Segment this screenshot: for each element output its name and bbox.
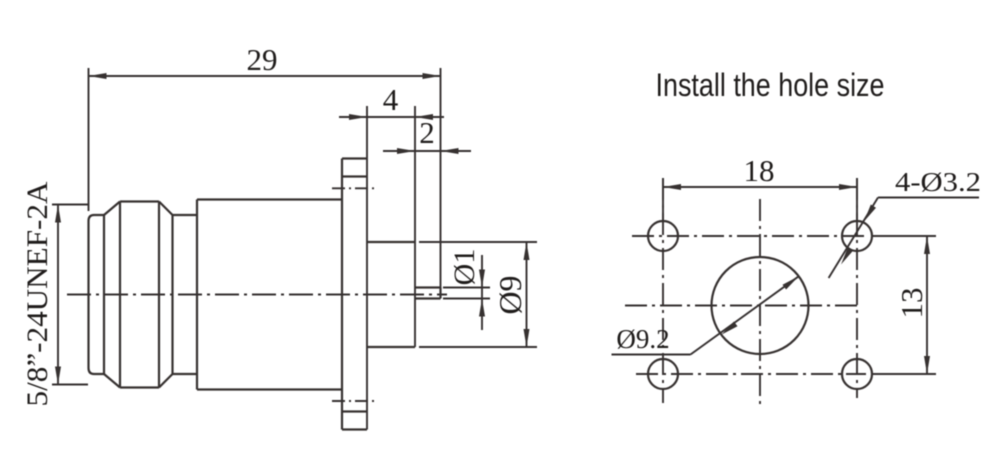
svg-text:Ø9: Ø9 (492, 275, 528, 314)
svg-text:Ø1: Ø1 (448, 249, 481, 286)
svg-text:4-Ø3.2: 4-Ø3.2 (895, 167, 981, 197)
svg-text:29: 29 (247, 42, 278, 77)
svg-text:2: 2 (419, 115, 435, 150)
svg-text:5/8”-24UNEF-2A: 5/8”-24UNEF-2A (21, 181, 54, 406)
svg-text:Ø9.2: Ø9.2 (616, 324, 669, 354)
svg-text:4: 4 (383, 82, 399, 117)
svg-text:18: 18 (744, 153, 775, 188)
svg-text:13: 13 (894, 288, 929, 319)
svg-text:Install the hole size: Install the hole size (656, 67, 885, 103)
